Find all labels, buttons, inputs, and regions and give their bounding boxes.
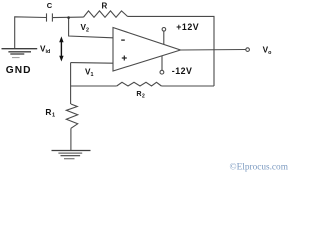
svg-text:R1: R1 <box>45 107 55 119</box>
svg-text:Vid: Vid <box>40 45 50 56</box>
op-amp minus sign <box>121 39 125 41</box>
wire capacitor to resistor R <box>53 16 84 19</box>
resistor R1 <box>66 104 77 128</box>
output terminal circle <box>246 48 250 52</box>
op-amp negative supply pin stub <box>161 56 163 70</box>
junction node at V2 <box>67 16 70 19</box>
capacitor C <box>46 13 48 21</box>
ground (bottom earth under R1) <box>52 151 91 159</box>
op-amp positive supply pin stub <box>163 31 165 44</box>
resistor R <box>84 11 128 17</box>
svg-text:V2: V2 <box>81 23 89 34</box>
svg-text:Vo: Vo <box>263 45 272 56</box>
svg-text:+12V: +12V <box>176 22 199 32</box>
wire R1 to bottom ground <box>70 128 72 150</box>
node Vid differential arrow <box>59 36 63 61</box>
wire V1 node down to R1 <box>70 63 72 104</box>
op-amp positive supply terminal circle <box>162 28 166 32</box>
wire bottom feedback right segment <box>161 85 214 87</box>
op-amp plus sign <box>122 56 127 61</box>
wire R to top-right corner and down right side <box>128 16 215 86</box>
op-amp negative supply terminal circle <box>160 70 164 74</box>
svg-text:-12V: -12V <box>172 66 193 76</box>
svg-text:R: R <box>102 2 108 11</box>
ground (top-left earth) <box>2 49 38 58</box>
resistor R2 <box>117 82 162 86</box>
svg-text:V1: V1 <box>85 68 93 79</box>
svg-text:R2: R2 <box>136 89 145 99</box>
wire bottom feedback left segment <box>71 85 117 87</box>
op-amp U1 <box>113 28 181 72</box>
wire node V2 drop to inverting input <box>69 18 113 38</box>
output wire <box>181 49 246 52</box>
svg-text:GND: GND <box>6 65 32 76</box>
svg-text:©Elprocus.com: ©Elprocus.com <box>230 161 289 172</box>
wire node V1 to non-inverting input <box>71 62 113 65</box>
svg-text:C: C <box>47 1 53 10</box>
wire top-left from GND riser to capacitor <box>15 17 46 49</box>
